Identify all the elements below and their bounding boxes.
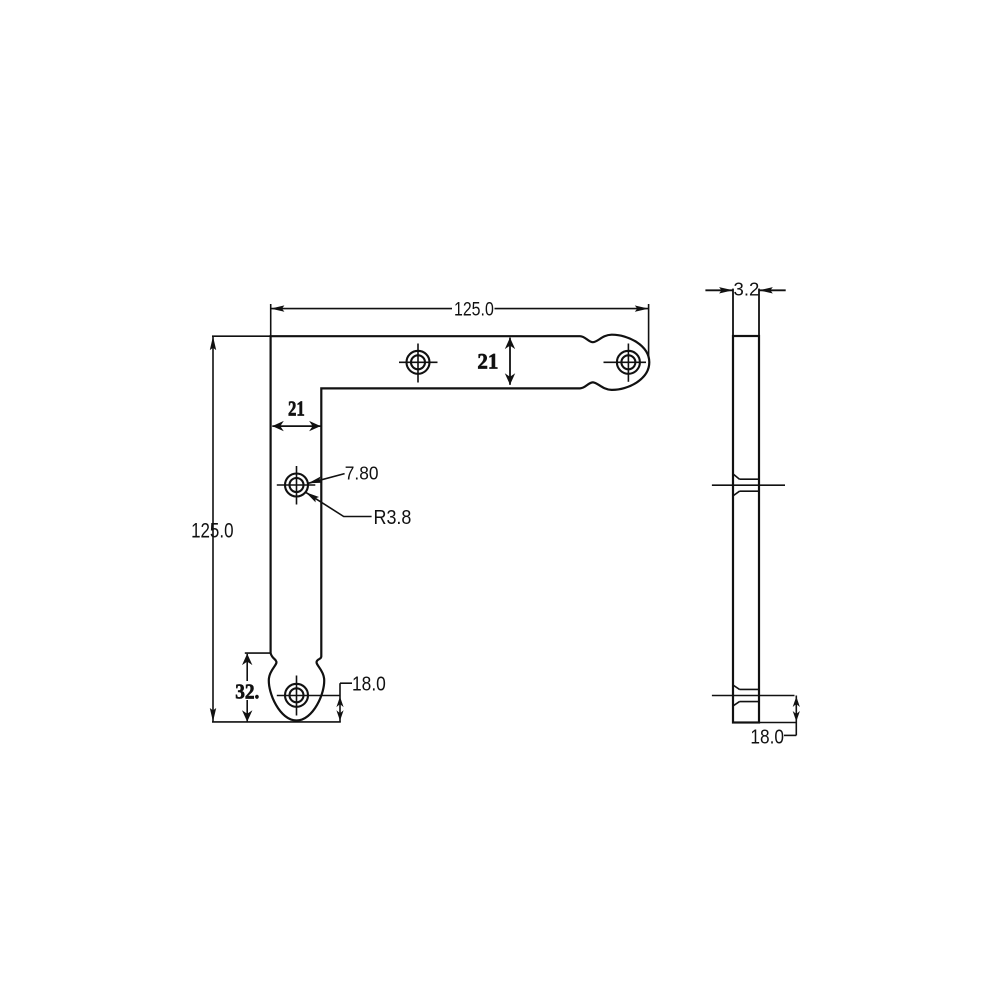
hole H4 (bottom end) [277,676,340,716]
leader R3.8 (corner radius) [306,492,372,516]
hole H3 (corner) [277,466,316,505]
dimension 18.0 (front view, bottom) [340,683,352,722]
dimension 21 horizontal (arm width, double arrow) [272,425,320,427]
bracket outline (front view, L-shaped plate) [269,335,649,721]
side view extension lines (3.2 dim) [705,289,785,336]
dimension 125.0 horizontal (top) [271,304,649,358]
svg-text:7.80: 7.80 [345,464,379,484]
side view countersink (middle hole) [712,474,785,496]
dimension 32. vertical (bottom left) [245,653,271,722]
svg-text:3.2: 3.2 [734,278,760,299]
svg-text:18.0: 18.0 [352,673,386,696]
hole H2 (top arm right end) [604,344,647,382]
dimension 21 vertical (arm width, double arrow) [509,338,511,385]
leader 7.80 (hole diameter) [308,474,344,484]
dimension 125.0 vertical (left) [212,336,341,722]
side view countersink (bottom hole) [712,685,795,706]
svg-text:21: 21 [477,348,498,373]
hole H1 (top arm middle) [399,344,438,383]
svg-text:32.: 32. [235,679,259,703]
svg-text:R3.8: R3.8 [374,506,412,529]
dimension 18.0 (side view, bottom) [759,696,796,736]
side view plate [733,336,759,723]
svg-text:21: 21 [288,397,305,421]
svg-text:18.0: 18.0 [750,726,784,749]
svg-text:125.0: 125.0 [191,519,233,542]
svg-text:125.0: 125.0 [454,298,494,320]
